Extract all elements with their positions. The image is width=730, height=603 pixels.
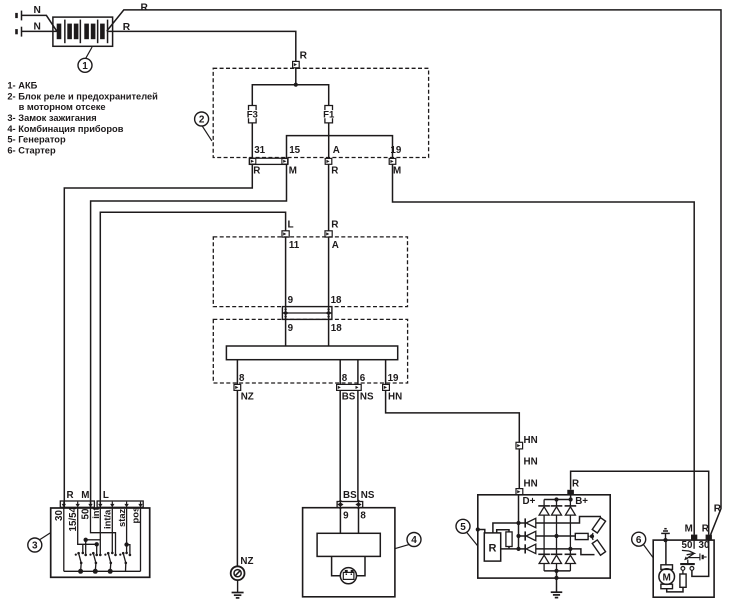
svg-text:18: 18	[331, 323, 342, 334]
terminal label int/a	[102, 509, 113, 529]
starter ground node	[663, 538, 667, 542]
stator winding 2	[575, 533, 589, 539]
label NZ at ground	[240, 556, 253, 567]
wire regulator to D+ rail	[493, 523, 519, 533]
rectifier diode bottom 1	[538, 554, 550, 571]
wire labels R M R M under fuse box	[253, 166, 401, 177]
display block	[317, 533, 380, 556]
pin labels 50 and 30	[682, 540, 710, 551]
instrument feed box (dashed, upper)	[213, 237, 407, 307]
labels R M L above switch	[67, 490, 109, 501]
key contact symbol	[688, 553, 706, 560]
svg-text:HN: HN	[388, 391, 402, 402]
svg-text:3: 3	[32, 541, 38, 552]
svg-text:NZ: NZ	[240, 556, 253, 567]
wire bus to pin 8 (BS)	[339, 360, 341, 385]
connector NZ	[234, 384, 241, 390]
wire R terminal A to board pin A	[328, 164, 330, 230]
svg-text:5: 5	[460, 522, 466, 533]
switch wire pos to common bus	[140, 508, 142, 571]
svg-text:M: M	[663, 572, 671, 583]
battery GB1 (АКБ)	[53, 17, 113, 46]
wire R alternator B+ to starter terminal R	[571, 471, 709, 535]
stator winding 1	[592, 518, 606, 537]
contact point left	[681, 567, 685, 571]
wire case node to regulator	[478, 530, 485, 533]
wire L switch pin int to board pin 11	[100, 212, 285, 508]
svg-text:11: 11	[289, 240, 300, 251]
wire resistor bottom to rail	[501, 547, 519, 549]
node 1 leader and label	[78, 47, 92, 72]
svg-text:6: 6	[636, 535, 642, 546]
rectifier diode bottom 2	[551, 554, 563, 571]
charge warning lamp	[340, 568, 356, 584]
node 4 leader and label	[395, 533, 421, 549]
svg-text:18: 18	[331, 295, 342, 306]
connector R entry into fuse box	[293, 51, 308, 68]
svg-text:15: 15	[289, 145, 300, 156]
wire 18 to bus bar	[328, 319, 330, 346]
wire HN board to alternator D+	[386, 390, 520, 442]
board-to-board connector 9/18	[282, 307, 332, 320]
wire contact to terminal 30	[692, 540, 709, 576]
ignition switch box	[51, 508, 150, 577]
svg-text:int: int	[90, 507, 101, 518]
node 6 leader and label	[632, 532, 654, 558]
terminal 31/15 connector	[249, 158, 288, 164]
wire 8 into display	[358, 508, 360, 534]
field diode D1	[519, 518, 536, 527]
svg-text:6: 6	[360, 373, 366, 384]
contact point right	[690, 567, 694, 571]
svg-text:M: M	[289, 166, 297, 177]
terminal label pos	[130, 507, 141, 524]
pin labels 11 and A	[289, 240, 339, 251]
svg-text:9: 9	[343, 510, 349, 521]
pin labels 9 and 18 above connector	[288, 295, 342, 306]
switch contact lever 1	[75, 552, 83, 574]
svg-text:A: A	[332, 240, 339, 251]
wire M terminal 15 to switch pin 50	[91, 164, 287, 508]
alternator ground symbol	[551, 592, 563, 597]
starter box	[653, 540, 714, 597]
wire contact to resistor	[682, 570, 684, 574]
svg-text:M: M	[393, 166, 401, 177]
stator star point	[590, 534, 594, 538]
node 3 leader and label	[28, 533, 51, 552]
wire field row 2 to phase 2 and winding	[536, 534, 576, 538]
switch wire int	[84, 508, 102, 556]
svg-text:R: R	[331, 220, 339, 231]
labels BS NS at cluster	[343, 490, 375, 501]
svg-text:BS: BS	[343, 490, 357, 501]
svg-text:B+: B+	[575, 496, 588, 507]
wire motor to solenoid resistor	[667, 587, 683, 592]
alternator box	[478, 495, 610, 578]
alternator ground lead	[554, 571, 558, 592]
label D+	[523, 496, 536, 507]
rectifier diode bottom 3	[565, 554, 577, 571]
body ground point (circle)	[231, 566, 245, 580]
switch wire 50	[91, 508, 117, 556]
instrument cluster feed box (dashed, lower)	[213, 319, 407, 383]
svg-text:R: R	[572, 478, 579, 489]
case connection node	[476, 527, 480, 531]
wire 9 into display	[339, 508, 341, 534]
wire R battery to starter (top run)	[107, 3, 722, 535]
wire linking terminals 15 and 19	[287, 136, 393, 159]
rectifier diode top 1	[538, 506, 550, 554]
field diode D2	[519, 531, 536, 540]
svg-text:M: M	[81, 490, 89, 501]
wire regulator to resistor	[497, 530, 509, 533]
legend text	[7, 81, 158, 156]
svg-text:9: 9	[288, 295, 294, 306]
connector pin 9	[283, 307, 289, 320]
svg-text:5- Генератор: 5- Генератор	[7, 135, 66, 145]
field diode D3	[519, 544, 536, 553]
wire NS to instrument cluster	[357, 390, 359, 501]
switch contact lever 2	[89, 552, 97, 574]
svg-text:M: M	[685, 524, 693, 535]
wire bus to pin 8 (NZ)	[236, 360, 238, 385]
svg-text:int/a: int/a	[102, 509, 113, 529]
connector R at pin A	[325, 220, 339, 238]
ground symbol below NZ point	[232, 580, 244, 598]
svg-text:F1: F1	[323, 110, 335, 121]
wire from connector to junction	[295, 68, 297, 85]
svg-text:L: L	[103, 490, 109, 501]
wire field row 3 to phase 3 and winding	[536, 547, 595, 555]
svg-text:NZ: NZ	[241, 391, 254, 402]
svg-text:L: L	[288, 220, 294, 231]
svg-text:R: R	[67, 490, 74, 501]
fuse F3	[247, 106, 258, 123]
connector HN at D+	[516, 479, 538, 495]
wire F3 to terminal 31	[251, 123, 253, 158]
svg-text:R: R	[141, 3, 149, 14]
field resistor	[506, 532, 512, 547]
svg-text:N: N	[34, 5, 41, 16]
connector pin 18	[326, 307, 332, 320]
svg-text:pos: pos	[130, 507, 141, 524]
svg-text:R: R	[123, 22, 131, 33]
pin labels 9 and 18 below connector	[288, 323, 343, 334]
lamp bracket left	[332, 556, 341, 575]
svg-text:R: R	[300, 51, 308, 62]
B+ rail	[544, 495, 573, 502]
svg-text:31: 31	[254, 145, 265, 156]
svg-text:8: 8	[360, 510, 366, 521]
terminal 19 connector	[389, 158, 396, 164]
wire BS to instrument cluster	[339, 390, 341, 501]
solenoid winding resistor	[680, 574, 686, 587]
wire HN connector to D+	[518, 449, 520, 489]
wire F1 to terminal A	[328, 123, 330, 158]
svg-text:HN: HN	[524, 457, 538, 468]
svg-text:3- Замок зажигания: 3- Замок зажигания	[7, 113, 96, 123]
terminal M (black square)	[685, 524, 698, 541]
svg-text:N: N	[34, 22, 41, 33]
bus bar	[226, 346, 397, 360]
wire R terminal 31 to switch pin 30	[64, 164, 252, 508]
terminal label int	[90, 507, 101, 518]
rectifier bottom rail	[544, 569, 570, 573]
fuse F1	[323, 106, 335, 123]
switch wire 15/54	[78, 508, 99, 556]
svg-text:4- Комбинация приборов: 4- Комбинация приборов	[7, 124, 123, 134]
svg-text:A: A	[333, 145, 340, 156]
wire field row 1 to phase 1 and winding	[536, 517, 601, 524]
terminal label 50	[81, 508, 92, 519]
D+ rail	[516, 495, 520, 551]
switch wire staz	[124, 508, 131, 556]
wire bus to pin 19 (HN)	[385, 360, 387, 385]
connector HN	[383, 384, 390, 390]
junction node	[294, 83, 298, 87]
relay and fuse box 2 (dashed)	[213, 68, 428, 157]
wire R battery to fuse box	[107, 22, 296, 61]
wire NZ to ground point	[236, 390, 238, 566]
terminal label 30	[54, 510, 65, 521]
wire A to 18 inside box A	[328, 237, 330, 307]
terminal label 15/54	[68, 506, 79, 531]
solenoid actuator	[682, 540, 694, 563]
svg-text:NS: NS	[360, 391, 374, 402]
svg-text:2- Блок реле и предохранителей: 2- Блок реле и предохранителей	[7, 91, 158, 101]
connector BS/NS	[337, 384, 362, 390]
connector HN (in-line)	[516, 435, 538, 467]
svg-text:4: 4	[411, 535, 417, 546]
switch contact lever 3	[104, 552, 112, 574]
switch contact lever 4	[119, 552, 127, 571]
svg-text:R: R	[253, 166, 260, 177]
terminal label staz	[116, 508, 127, 527]
instrument cluster box	[303, 508, 395, 597]
svg-text:50: 50	[682, 540, 693, 551]
svg-text:8: 8	[342, 373, 348, 384]
wire 11 to 9 inside box A	[285, 237, 287, 307]
wire ground node to motor	[665, 540, 667, 565]
switch wire 30 to common bus	[63, 508, 65, 571]
switch pin arrows	[62, 502, 143, 508]
svg-text:2: 2	[199, 115, 205, 126]
wire 9 to bus bar	[285, 319, 287, 346]
svg-text:8: 8	[239, 373, 245, 384]
terminal R (black square)	[702, 524, 712, 541]
node 5 leader and label	[456, 519, 478, 545]
svg-text:1: 1	[82, 61, 88, 72]
svg-text:19: 19	[390, 145, 401, 156]
svg-text:R: R	[714, 504, 722, 515]
switch common bus	[64, 570, 141, 572]
switch connector bar 1	[60, 501, 94, 507]
svg-text:staz: staz	[116, 508, 127, 527]
node 2 leader and label	[195, 112, 212, 141]
svg-text:R: R	[331, 166, 338, 177]
rectifier feed stubs	[544, 500, 570, 506]
voltage regulator R	[484, 533, 500, 561]
solenoid contact bar	[680, 563, 695, 565]
svg-text:HN: HN	[524, 479, 538, 490]
stator winding 3	[592, 536, 606, 555]
rectifier diode top 3	[565, 506, 577, 554]
connector L at pin 11	[282, 220, 294, 238]
svg-text:19: 19	[388, 373, 399, 384]
terminal B+ (black square)	[567, 490, 588, 507]
starter chassis symbol	[661, 529, 670, 540]
svg-text:NS: NS	[361, 490, 375, 501]
pin labels 31 15 A 19	[254, 145, 402, 156]
ground terminal N (lower)	[15, 22, 57, 37]
svg-text:R: R	[489, 542, 497, 554]
terminal A connector	[325, 158, 332, 164]
wire bus to pin 6 (NS)	[357, 360, 359, 385]
svg-text:6- Стартер: 6- Стартер	[7, 145, 56, 155]
svg-text:1- АКБ: 1- АКБ	[7, 81, 37, 91]
svg-text:R: R	[702, 524, 709, 535]
wire M terminal 19 to starter terminal M	[393, 164, 695, 534]
pin labels 8 8 6 19	[239, 373, 399, 384]
switch wire int/a	[111, 508, 114, 554]
starter motor M	[659, 565, 675, 589]
ground terminal N (upper)	[15, 5, 57, 31]
svg-text:BS: BS	[342, 391, 356, 402]
svg-text:HN: HN	[524, 435, 538, 446]
switch connector bar 2	[97, 501, 143, 507]
rectifier diode top 2	[551, 506, 563, 554]
connector 9/8 at cluster	[337, 500, 363, 510]
svg-text:9: 9	[288, 323, 294, 334]
lamp bracket right	[356, 556, 365, 575]
svg-text:F3: F3	[247, 110, 258, 121]
wire to fuses	[252, 85, 328, 106]
pin labels 9 and 8 inside cluster	[343, 510, 366, 521]
svg-text:D+: D+	[523, 496, 536, 507]
wire labels NZ BS NS HN	[241, 391, 402, 402]
svg-text:в моторном отсеке: в моторном отсеке	[19, 102, 106, 112]
